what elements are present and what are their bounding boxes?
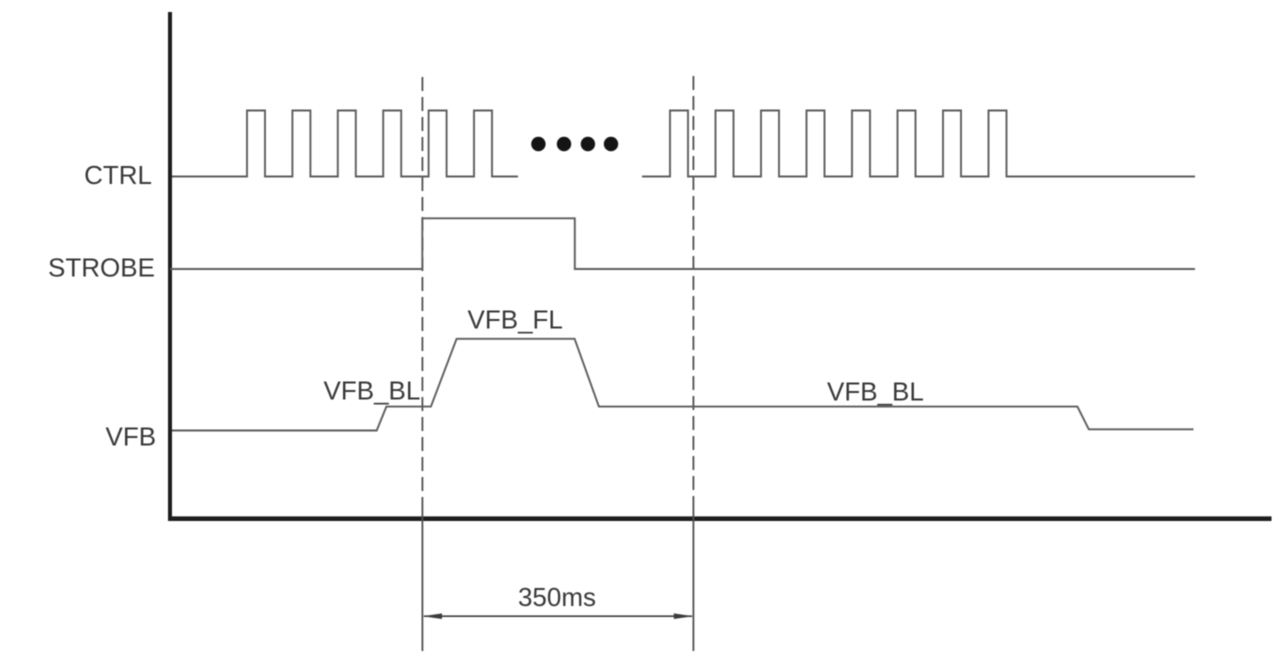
- wire VFB waveform: [172, 339, 1194, 431]
- svg-text:VFB_BL: VFB_BL: [827, 377, 924, 407]
- dots continuation: [531, 137, 618, 151]
- wire CTRL pulse burst 1: [172, 111, 518, 177]
- dimension arrowhead left: [423, 613, 442, 619]
- dashed line t1: [421, 77, 423, 651]
- dimension arrowhead right: [674, 613, 693, 619]
- svg-text:VFB: VFB: [106, 422, 157, 452]
- svg-text:VFB_FL: VFB_FL: [468, 305, 563, 335]
- svg-text:VFB_BL: VFB_BL: [324, 376, 421, 406]
- dimension line 350ms: [424, 615, 692, 617]
- svg-text:350ms: 350ms: [518, 582, 596, 612]
- vertical axis: [168, 12, 172, 521]
- wire STROBE waveform: [170, 218, 1195, 269]
- svg-text:STROBE: STROBE: [48, 253, 155, 283]
- svg-text:CTRL: CTRL: [84, 160, 152, 190]
- dashed line t2: [692, 76, 694, 651]
- bottom axis: [168, 516, 1272, 521]
- wire CTRL pulse burst 2: [642, 111, 1195, 177]
